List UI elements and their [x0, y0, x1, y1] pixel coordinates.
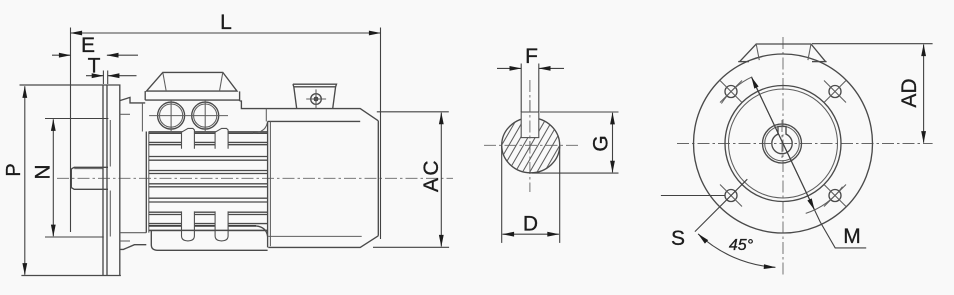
- label S leader: [671, 179, 747, 250]
- spigot circles: [725, 86, 841, 202]
- svg-text:P: P: [3, 163, 25, 176]
- fan cowl: [268, 121, 379, 248]
- dimension D: [503, 213, 559, 236]
- flange view centerlines: [677, 37, 933, 277]
- dimension L extension lines: [71, 28, 381, 240]
- 45 degree arc: [698, 234, 775, 267]
- rear housing top: [240, 101, 379, 121]
- dimension M line: [752, 77, 821, 222]
- dimension L: [71, 11, 381, 34]
- dimension F extension lines: [521, 64, 539, 113]
- shaft section circle: [502, 118, 560, 173]
- centerline left view: [57, 177, 453, 179]
- rear endshield edge: [265, 109, 267, 122]
- label M leader: [820, 222, 866, 248]
- svg-text:N: N: [32, 164, 55, 179]
- flange plate: [20, 85, 121, 276]
- front endshield: [120, 97, 149, 249]
- dimension N: [32, 119, 55, 236]
- shaft hatching: [483, 95, 578, 196]
- bolt circle arc lower: [806, 187, 843, 214]
- dimension P: [3, 86, 25, 274]
- dimension G extension lines: [532, 112, 619, 173]
- dimension AD extension line: [812, 43, 933, 45]
- dimension E: [52, 34, 138, 57]
- hub circles: [763, 124, 802, 163]
- cap target symbol: [306, 89, 326, 108]
- dimension F: [497, 45, 564, 68]
- fin bottom boundary line: [149, 229, 268, 231]
- bolt circle arc upper: [721, 77, 752, 104]
- fin boss top-right: [215, 128, 228, 148]
- dimension T: [86, 55, 137, 78]
- bolt hole bottom-right: [824, 185, 846, 207]
- fin bottom boundary: [149, 229, 268, 231]
- fin boss top-left: [182, 128, 195, 148]
- motor shaft: [71, 167, 108, 189]
- terminal box front view: [738, 44, 826, 62]
- svg-text:AC: AC: [420, 158, 443, 192]
- shaft section centerlines: [484, 80, 580, 192]
- shaft keyway: [778, 126, 786, 134]
- fin boss bottom-right: [215, 211, 228, 230]
- key centerline: [529, 100, 531, 150]
- bolt hole top-left: [720, 81, 742, 103]
- dimension AC: [420, 113, 443, 247]
- 45 degree horizontal reference: [661, 195, 725, 197]
- dimension G: [590, 113, 613, 173]
- svg-text:G: G: [590, 135, 613, 151]
- dimension D extension lines: [502, 146, 560, 243]
- key: [521, 112, 539, 138]
- svg-text:AD: AD: [898, 78, 921, 107]
- svg-text:D: D: [523, 213, 538, 236]
- svg-text:L: L: [220, 11, 232, 34]
- fin boss bottom-left: [182, 211, 195, 230]
- svg-text:S: S: [671, 227, 685, 250]
- svg-text:F: F: [525, 45, 538, 68]
- dimension AD: [898, 45, 924, 143]
- keyway centerline cover: [781, 120, 783, 160]
- svg-text:M: M: [843, 225, 861, 248]
- terminal box: [145, 72, 239, 101]
- svg-text:T: T: [88, 55, 101, 78]
- shaft hole circle: [772, 133, 792, 153]
- cooling fins: [149, 123, 268, 237]
- drain hanger left: [182, 230, 195, 241]
- lifting cap: [293, 84, 337, 108]
- cable gland circles: [149, 100, 228, 132]
- dimension AC extension lines: [373, 112, 449, 248]
- drain hanger right: [215, 230, 228, 241]
- dimension T extension lines: [103, 71, 107, 85]
- svg-text:45°: 45°: [729, 237, 754, 254]
- bolt hole top-right: [824, 81, 846, 103]
- dimension N extension lines: [45, 119, 108, 238]
- flange outer circle: [694, 54, 873, 233]
- flange spigot: [109, 120, 111, 237]
- body bottom outline: [151, 231, 267, 251]
- bolt hole bottom-left: [720, 185, 742, 207]
